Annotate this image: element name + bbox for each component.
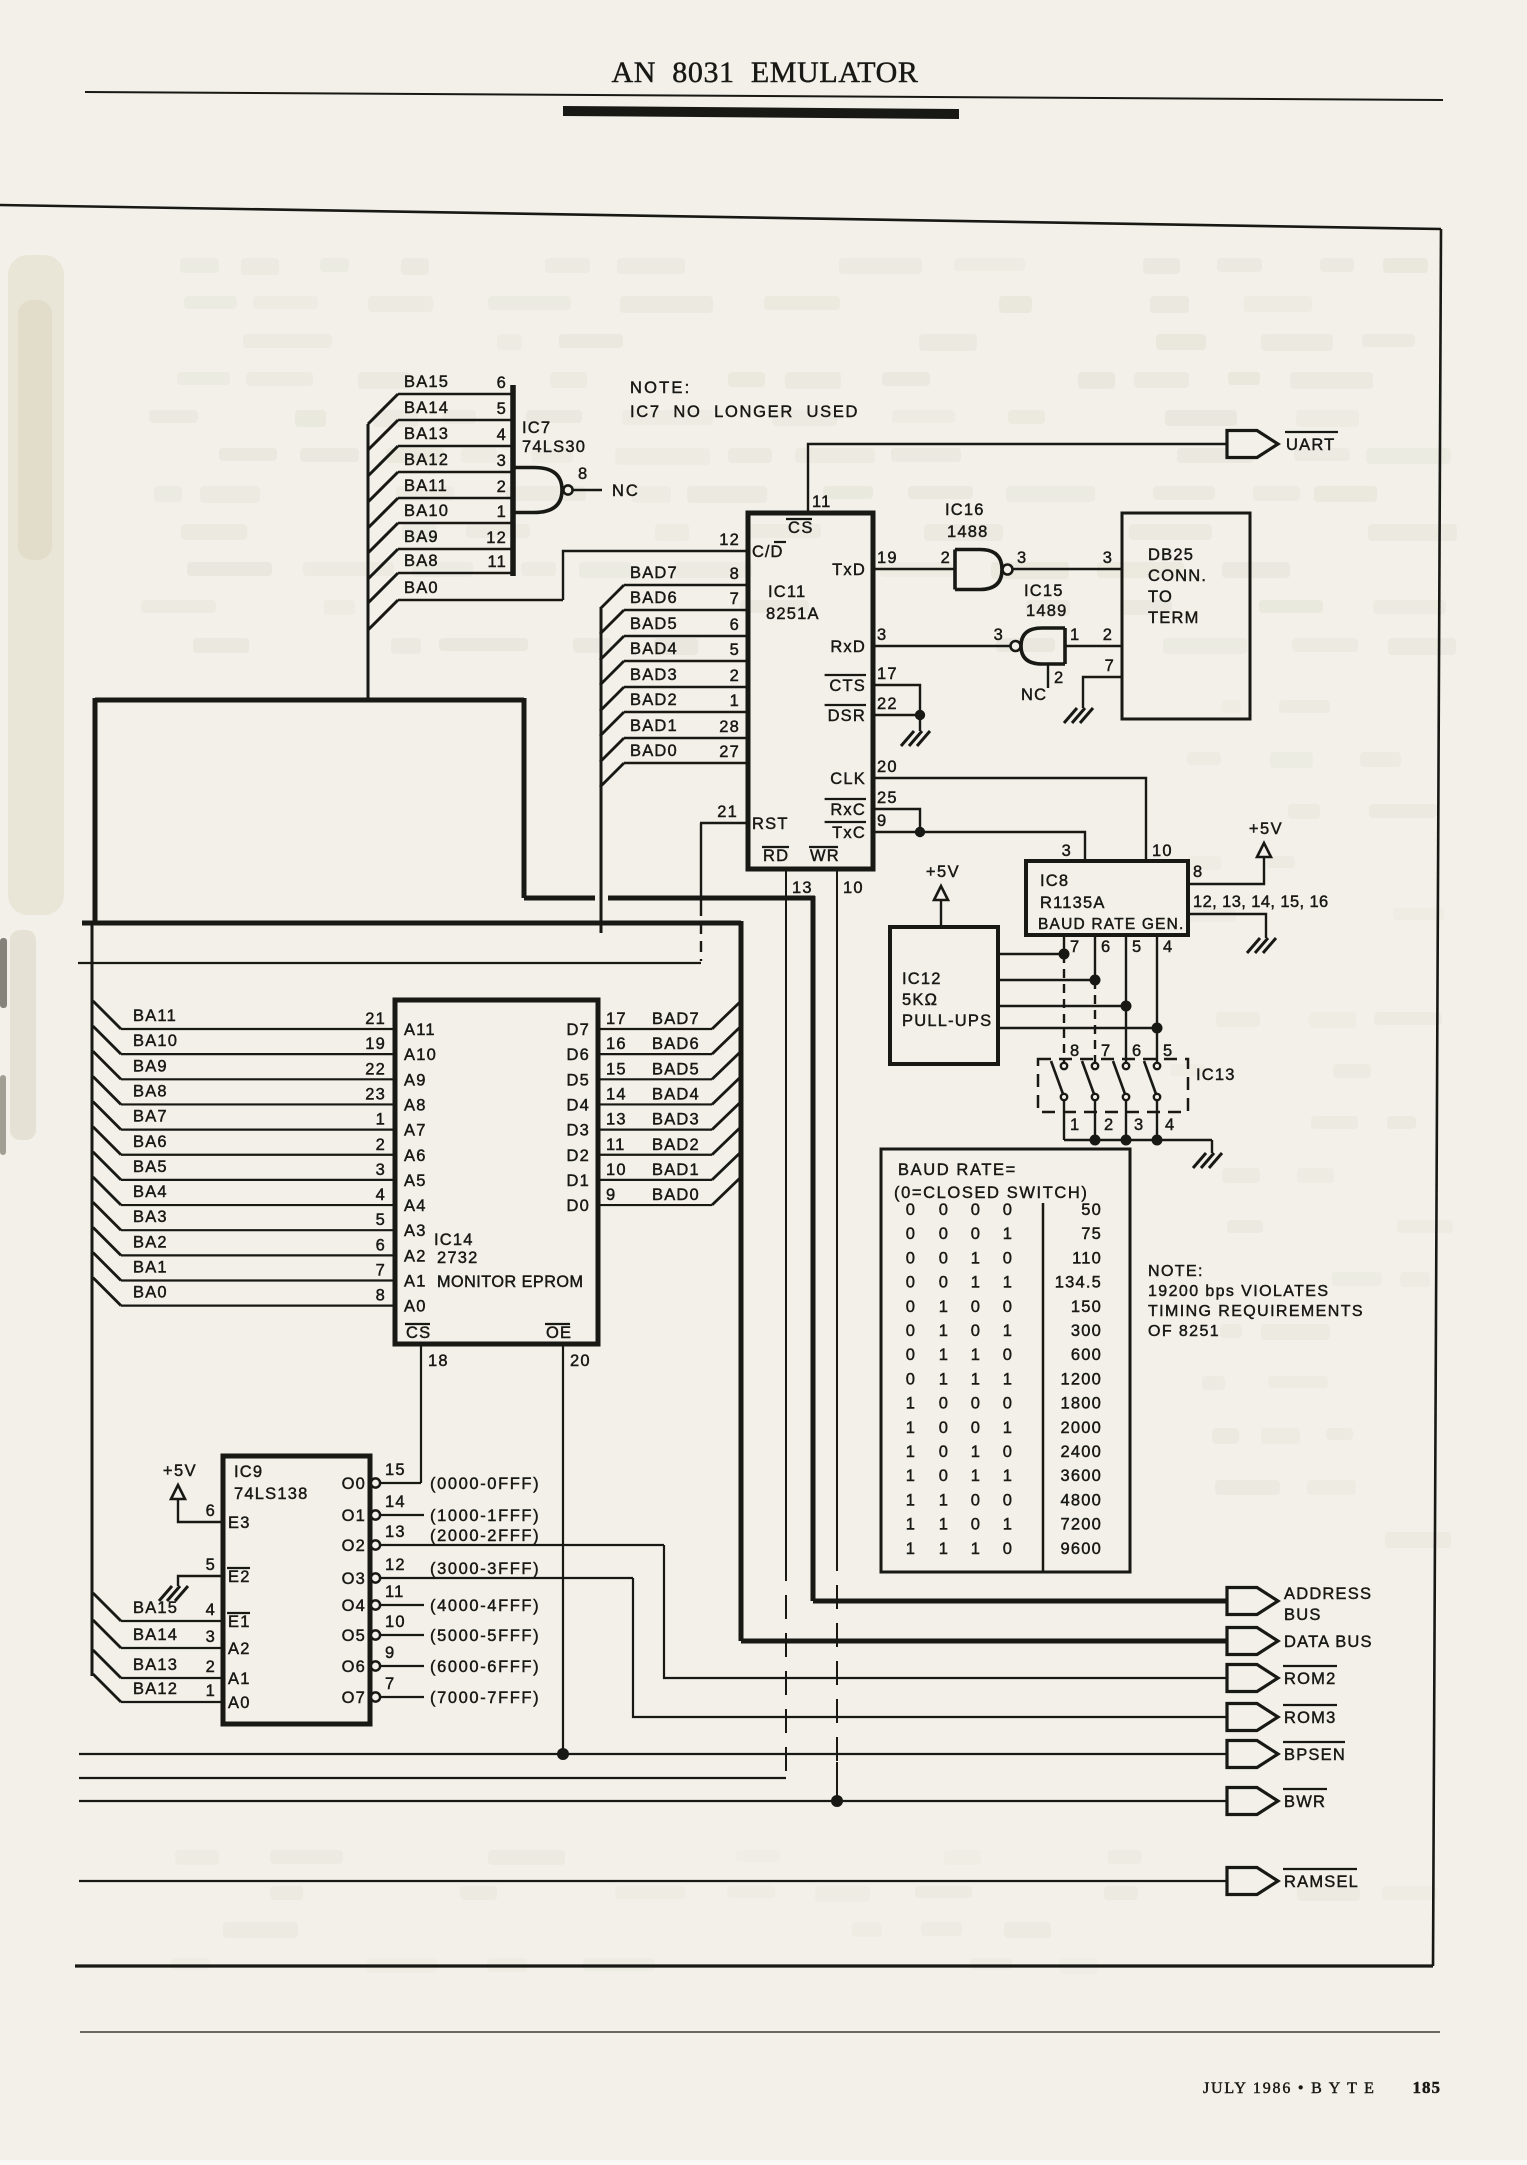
- wire BAD4 to IC11: [600, 661, 624, 685]
- title thick bar: [563, 106, 959, 119]
- wire BA4 to IC14 A4: [93, 1177, 121, 1205]
- IC11 8251A USART: [748, 513, 873, 869]
- svg-text:BA11: BA11: [404, 477, 448, 495]
- ground (IC9 E2): [175, 1586, 188, 1601]
- svg-text:5: 5: [376, 1211, 386, 1229]
- svg-text:RxD: RxD: [830, 638, 866, 656]
- svg-text:10: 10: [385, 1613, 406, 1631]
- svg-text:3: 3: [1103, 549, 1113, 567]
- svg-text:1: 1: [939, 1322, 949, 1340]
- svg-text:7200: 7200: [1060, 1516, 1102, 1534]
- svg-text:NC: NC: [1021, 686, 1047, 704]
- svg-text:O3: O3: [342, 1570, 366, 1588]
- svg-text:1: 1: [906, 1419, 916, 1437]
- svg-text:C/D: C/D: [752, 543, 783, 561]
- svg-text:2732: 2732: [437, 1249, 479, 1267]
- svg-text:1: 1: [939, 1491, 949, 1509]
- wire IC8 pin 7: [1063, 935, 1065, 954]
- svg-text:CLK: CLK: [830, 770, 866, 788]
- svg-text:+5V: +5V: [1249, 820, 1283, 838]
- wire IC9 E2 to ground: [178, 1576, 223, 1586]
- svg-text:TxC: TxC: [832, 824, 866, 842]
- svg-text:A1: A1: [404, 1273, 427, 1291]
- connector J1 DB25: [1122, 513, 1250, 719]
- svg-text:ROM3: ROM3: [1284, 1709, 1336, 1727]
- svg-text:BA0: BA0: [133, 1284, 168, 1302]
- svg-text:BPSEN: BPSEN: [1284, 1746, 1346, 1764]
- svg-text:PULL-UPS: PULL-UPS: [902, 1012, 992, 1030]
- svg-text:CONN.: CONN.: [1148, 567, 1207, 585]
- wire BA15 to IC9 E1: [93, 1593, 121, 1621]
- wire BAD6 to IC11: [600, 610, 624, 634]
- wire BA11 to IC7: [368, 498, 398, 528]
- svg-text:1: 1: [971, 1274, 981, 1292]
- svg-text:74LS30: 74LS30: [522, 438, 586, 456]
- node ROM2 arrow: [1227, 1665, 1278, 1692]
- IC8 R1135A baud rate generator: [1026, 861, 1188, 935]
- svg-text:1: 1: [730, 692, 740, 710]
- svg-text:BA0: BA0: [404, 579, 439, 597]
- svg-text:22: 22: [365, 1060, 386, 1078]
- svg-text:0: 0: [906, 1322, 916, 1340]
- svg-text:0: 0: [906, 1346, 916, 1364]
- svg-text:1: 1: [971, 1346, 981, 1364]
- node BA bus (top) vertical: [367, 424, 370, 700]
- svg-text:A10: A10: [404, 1046, 437, 1064]
- svg-text:RD: RD: [763, 847, 789, 865]
- svg-text:28: 28: [719, 718, 740, 736]
- svg-text:BA15: BA15: [404, 373, 449, 391]
- wire BA13 to IC7: [368, 446, 398, 476]
- svg-text:BA6: BA6: [133, 1133, 168, 1151]
- svg-text:R1135A: R1135A: [1040, 894, 1106, 912]
- svg-text:7: 7: [730, 590, 740, 608]
- svg-text:BAD2: BAD2: [630, 691, 678, 709]
- wire BAD1 to IC11: [600, 738, 624, 762]
- svg-text:14: 14: [606, 1085, 627, 1103]
- baud rate table: [881, 1149, 1130, 1572]
- svg-text:D1: D1: [567, 1172, 591, 1190]
- switch block IC13: [1038, 1059, 1188, 1112]
- svg-text:0: 0: [939, 1419, 949, 1437]
- svg-text:16: 16: [606, 1035, 627, 1053]
- wire BA12 to IC9 A0: [93, 1674, 121, 1702]
- svg-text:TO: TO: [1148, 588, 1173, 606]
- svg-text:8: 8: [1070, 1042, 1080, 1060]
- svg-text:RxC: RxC: [830, 801, 866, 819]
- svg-text:11: 11: [487, 553, 507, 571]
- wire BA7 to IC14 A7: [93, 1102, 121, 1130]
- svg-text:0: 0: [939, 1249, 949, 1267]
- svg-text:2400: 2400: [1060, 1443, 1102, 1461]
- svg-text:19200 bps VIOLATES: 19200 bps VIOLATES: [1148, 1283, 1329, 1300]
- svg-text:1: 1: [939, 1540, 949, 1558]
- svg-text:20: 20: [570, 1352, 591, 1370]
- svg-text:A3: A3: [404, 1222, 427, 1240]
- svg-text:0: 0: [939, 1443, 949, 1461]
- wire IC12 to IC8 pin 4: [998, 1027, 1157, 1029]
- svg-text:2: 2: [1103, 626, 1113, 644]
- switch IC13-4: [1154, 1063, 1160, 1069]
- ground (IC8): [1263, 938, 1276, 953]
- svg-text:A2: A2: [404, 1247, 427, 1265]
- svg-text:13: 13: [792, 879, 813, 897]
- wire data bus to arrow: [741, 1639, 1227, 1644]
- svg-text:3: 3: [994, 626, 1004, 644]
- wire BA6 to IC14 A6: [93, 1127, 121, 1155]
- svg-text:1: 1: [971, 1443, 981, 1461]
- svg-text:8: 8: [730, 565, 740, 583]
- svg-text:0: 0: [906, 1201, 916, 1219]
- svg-text:3: 3: [497, 452, 507, 470]
- svg-text:BAD6: BAD6: [630, 589, 678, 607]
- svg-text:10: 10: [843, 879, 864, 897]
- svg-text:1: 1: [1070, 1116, 1080, 1134]
- svg-text:BAD5: BAD5: [630, 615, 678, 633]
- svg-text:1: 1: [971, 1249, 981, 1267]
- svg-text:0: 0: [1003, 1201, 1013, 1219]
- wire BA15 to IC7: [368, 394, 398, 424]
- svg-text:14: 14: [385, 1493, 406, 1511]
- svg-text:BAD7: BAD7: [630, 564, 678, 582]
- wire TxD to IC16: [873, 568, 955, 570]
- wire BA0 to IC14 A0: [93, 1278, 121, 1306]
- wire IC11 RD pin 13 down: [785, 869, 787, 1557]
- node junction CTS/DSR: [915, 710, 925, 720]
- svg-text:0: 0: [1003, 1395, 1013, 1413]
- svg-text:(1000-1FFF): (1000-1FFF): [430, 1507, 540, 1525]
- svg-text:4: 4: [206, 1601, 216, 1619]
- svg-text:(5000-5FFF): (5000-5FFF): [430, 1627, 540, 1645]
- svg-text:1: 1: [1070, 626, 1080, 644]
- svg-text:BA5: BA5: [133, 1158, 168, 1176]
- wire IC8 pin 8 to +5V: [1188, 857, 1264, 884]
- node ADDRESS BUS arrow: [1227, 1588, 1278, 1615]
- switch IC13-3: [1123, 1063, 1129, 1069]
- svg-text:0: 0: [906, 1298, 916, 1316]
- wire BA10 to IC7: [368, 523, 398, 553]
- svg-text:BA4: BA4: [133, 1183, 168, 1201]
- svg-text:BA1: BA1: [133, 1259, 168, 1277]
- svg-text:6: 6: [376, 1236, 386, 1254]
- svg-text:1: 1: [939, 1298, 949, 1316]
- svg-text:7: 7: [1105, 657, 1115, 675]
- svg-text:AN 8031 EMULATOR: AN 8031 EMULATOR: [612, 56, 919, 89]
- svg-text:0: 0: [939, 1225, 949, 1243]
- svg-text:3: 3: [1062, 842, 1072, 860]
- svg-text:BA8: BA8: [404, 552, 439, 570]
- svg-text:7: 7: [1101, 1042, 1111, 1060]
- svg-text:UART: UART: [1286, 436, 1335, 454]
- svg-text:6: 6: [497, 374, 507, 392]
- wire IC8 pin 5: [1125, 935, 1127, 1062]
- wire RST net to left edge: [78, 962, 701, 964]
- svg-text:BAD0: BAD0: [652, 1186, 700, 1204]
- svg-text:A8: A8: [404, 1096, 427, 1114]
- svg-text:3600: 3600: [1060, 1467, 1102, 1485]
- wire IC8 pin 6: [1094, 935, 1096, 980]
- svg-text:D5: D5: [567, 1071, 591, 1089]
- wire IC14 CS pin 18 to IC9 O0: [420, 1344, 422, 1483]
- svg-text:BAD5: BAD5: [652, 1060, 700, 1078]
- svg-text:0: 0: [971, 1298, 981, 1316]
- svg-text:4: 4: [1165, 1116, 1175, 1134]
- IC7 input bar: [510, 385, 516, 576]
- wire IC8 pins 12-16 to ground: [1188, 914, 1266, 938]
- svg-text:BA9: BA9: [133, 1057, 168, 1075]
- svg-text:0: 0: [906, 1249, 916, 1267]
- svg-text:10: 10: [1152, 842, 1173, 860]
- svg-text:IC13: IC13: [1196, 1066, 1236, 1084]
- svg-text:+5V: +5V: [163, 1462, 197, 1480]
- svg-text:OE: OE: [546, 1324, 572, 1342]
- svg-text:O1: O1: [342, 1507, 366, 1525]
- svg-text:D3: D3: [567, 1122, 591, 1140]
- wire BA9 to IC7: [368, 549, 398, 579]
- svg-text:BAD3: BAD3: [652, 1111, 700, 1129]
- svg-text:BAD7: BAD7: [652, 1010, 700, 1028]
- svg-text:D2: D2: [567, 1147, 591, 1165]
- switch IC13-1: [1061, 1063, 1067, 1069]
- svg-text:0: 0: [939, 1395, 949, 1413]
- svg-text:DSR: DSR: [828, 707, 866, 725]
- svg-text:12: 12: [385, 1556, 406, 1574]
- node RAMSEL arrow: [1227, 1868, 1278, 1895]
- svg-text:3: 3: [877, 626, 887, 644]
- svg-text:1800: 1800: [1060, 1395, 1102, 1413]
- svg-text:7: 7: [376, 1262, 386, 1280]
- svg-text:A9: A9: [404, 1071, 427, 1089]
- svg-text:5: 5: [1132, 938, 1142, 956]
- svg-text:0: 0: [939, 1201, 949, 1219]
- svg-text:IC12: IC12: [902, 970, 942, 988]
- svg-text:TIMING REQUIREMENTS: TIMING REQUIREMENTS: [1148, 1303, 1364, 1320]
- svg-text:23: 23: [365, 1085, 386, 1103]
- svg-text:BAD4: BAD4: [652, 1085, 700, 1103]
- svg-text:6: 6: [1132, 1042, 1142, 1060]
- wire BWR rail: [79, 1800, 1227, 1802]
- svg-text:5: 5: [730, 641, 740, 659]
- svg-text:50: 50: [1081, 1201, 1102, 1219]
- svg-text:9: 9: [877, 812, 887, 830]
- node ROM3 arrow: [1227, 1704, 1278, 1731]
- svg-text:BA13: BA13: [133, 1656, 178, 1674]
- node left BA bus vertical: [91, 925, 94, 1676]
- wire IC15 output to IC11 RxD: [873, 645, 1010, 647]
- svg-text:8251A: 8251A: [766, 605, 820, 623]
- svg-text:22: 22: [877, 695, 898, 713]
- svg-text:0: 0: [939, 1467, 949, 1485]
- wire BAD3 to IC11: [600, 687, 624, 711]
- wire RD net to left edge: [79, 1777, 786, 1779]
- svg-text:BAD1: BAD1: [630, 717, 678, 735]
- svg-text:1: 1: [906, 1491, 916, 1509]
- svg-text:0: 0: [1003, 1298, 1013, 1316]
- svg-text:3: 3: [1017, 549, 1027, 567]
- svg-text:0: 0: [971, 1201, 981, 1219]
- svg-text:DB25: DB25: [1148, 546, 1194, 564]
- svg-text:1: 1: [906, 1443, 916, 1461]
- svg-text:1: 1: [939, 1516, 949, 1534]
- svg-text:185: 185: [1413, 2078, 1442, 2097]
- node junction OE/BPSEN: [557, 1748, 569, 1760]
- node DATA BUS arrow: [1227, 1628, 1278, 1655]
- svg-text:3: 3: [206, 1628, 216, 1646]
- svg-text:BA13: BA13: [404, 425, 449, 443]
- svg-text:2: 2: [1054, 669, 1064, 687]
- svg-text:2: 2: [497, 478, 507, 496]
- svg-text:NC: NC: [612, 482, 640, 500]
- svg-text:A7: A7: [404, 1122, 427, 1140]
- wire IC12 to IC8 pin 6: [998, 979, 1095, 981]
- wire BAD2 to IC11: [600, 712, 624, 736]
- svg-text:E2: E2: [228, 1568, 251, 1586]
- wire DB25 pin 7 to ground: [1083, 677, 1122, 708]
- wire BA3 to IC14 A3: [93, 1202, 121, 1230]
- svg-text:150: 150: [1071, 1298, 1102, 1316]
- svg-text:1: 1: [971, 1370, 981, 1388]
- svg-text:8: 8: [578, 465, 588, 483]
- svg-text:IC15: IC15: [1024, 582, 1064, 600]
- svg-text:BAUD RATE GEN.: BAUD RATE GEN.: [1038, 916, 1185, 933]
- svg-text:1: 1: [206, 1682, 216, 1700]
- svg-text:11: 11: [385, 1583, 405, 1601]
- svg-text:WR: WR: [810, 847, 840, 865]
- svg-text:300: 300: [1071, 1322, 1102, 1340]
- svg-text:0: 0: [906, 1370, 916, 1388]
- svg-text:ADDRESS: ADDRESS: [1284, 1585, 1372, 1603]
- op-amp U1 IC7 74LS30 NAND gate: [515, 468, 562, 513]
- wire address bus to arrow: [813, 1599, 1227, 1604]
- svg-text:21: 21: [365, 1010, 386, 1028]
- svg-text:BA8: BA8: [133, 1082, 168, 1100]
- svg-text:O7: O7: [342, 1689, 366, 1707]
- svg-text:15: 15: [606, 1060, 627, 1078]
- svg-text:BA10: BA10: [133, 1032, 178, 1050]
- svg-text:IC7: IC7: [522, 419, 551, 437]
- wire IC7 pin 8 output: [573, 489, 602, 491]
- svg-text:4: 4: [376, 1186, 386, 1204]
- svg-text:8: 8: [1193, 863, 1203, 881]
- svg-text:IC14: IC14: [434, 1231, 474, 1249]
- svg-text:1: 1: [906, 1516, 916, 1534]
- node junction WR/BWR: [831, 1795, 843, 1807]
- svg-text:5: 5: [1163, 1042, 1173, 1060]
- wire BA0 to C/D: [563, 551, 748, 600]
- svg-text:1489: 1489: [1026, 602, 1068, 620]
- svg-text:BA3: BA3: [133, 1208, 168, 1226]
- svg-text:A2: A2: [228, 1640, 251, 1658]
- svg-text:D4: D4: [567, 1096, 591, 1114]
- svg-text:21: 21: [717, 803, 738, 821]
- svg-text:1: 1: [906, 1540, 916, 1558]
- svg-text:5: 5: [206, 1556, 216, 1574]
- svg-text:BA9: BA9: [404, 528, 439, 546]
- node BPSEN arrow: [1227, 1741, 1278, 1768]
- svg-text:0: 0: [906, 1225, 916, 1243]
- svg-text:0: 0: [1003, 1540, 1013, 1558]
- svg-text:1: 1: [497, 503, 507, 521]
- svg-text:2000: 2000: [1060, 1419, 1102, 1437]
- wire IC11 CTS to ground: [873, 685, 920, 715]
- IC11 pin 11 CS wire to UART: [808, 444, 1227, 513]
- svg-text:8: 8: [376, 1287, 386, 1305]
- memory IC14 2732 monitor EPROM: [395, 1000, 598, 1344]
- wire address bus vertical to arrow: [811, 896, 816, 1601]
- svg-text:IC16: IC16: [945, 501, 985, 519]
- svg-text:BAD1: BAD1: [652, 1161, 700, 1179]
- svg-text:600: 600: [1071, 1346, 1102, 1364]
- svg-text:0: 0: [971, 1225, 981, 1243]
- wire ROM2 route from IC9 O2: [664, 1545, 1227, 1678]
- svg-text:+5V: +5V: [926, 863, 960, 881]
- wire BA11 to IC14 A11: [93, 1001, 121, 1029]
- svg-text:5KΩ: 5KΩ: [902, 991, 938, 1009]
- svg-text:11: 11: [812, 493, 832, 511]
- wire BA2 to IC14 A2: [93, 1227, 121, 1255]
- svg-text:2: 2: [730, 667, 740, 685]
- svg-text:BAD6: BAD6: [652, 1035, 700, 1053]
- svg-text:A0: A0: [228, 1694, 251, 1712]
- svg-text:110: 110: [1072, 1249, 1102, 1267]
- svg-text:2: 2: [1104, 1116, 1114, 1134]
- svg-text:ROM2: ROM2: [1284, 1670, 1336, 1688]
- gate IC15 1489 receiver: [1021, 628, 1065, 664]
- svg-text:0: 0: [939, 1274, 949, 1292]
- wire BA5 to IC14 A5: [93, 1152, 121, 1180]
- svg-text:1: 1: [1003, 1370, 1013, 1388]
- svg-text:IC9: IC9: [234, 1463, 263, 1481]
- wire data bus vertical to arrow: [739, 921, 744, 1641]
- wire data bus horizontal: [82, 921, 741, 926]
- svg-text:1: 1: [939, 1346, 949, 1364]
- wire BA14 to IC9 A2: [93, 1620, 121, 1648]
- svg-text:0: 0: [1003, 1443, 1013, 1461]
- svg-text:4: 4: [497, 426, 507, 444]
- svg-text:20: 20: [877, 758, 898, 776]
- svg-text:BA7: BA7: [133, 1108, 168, 1126]
- svg-text:BAD0: BAD0: [630, 742, 678, 760]
- svg-text:3: 3: [1134, 1116, 1144, 1134]
- svg-text:A4: A4: [404, 1197, 427, 1215]
- wire IC11 CLK to IC8 pin 10: [873, 778, 1146, 861]
- wire BA8 to IC14 A8: [93, 1076, 121, 1104]
- svg-text:0: 0: [1003, 1491, 1013, 1509]
- svg-text:0: 0: [971, 1491, 981, 1509]
- svg-text:0: 0: [971, 1322, 981, 1340]
- svg-text:0: 0: [971, 1516, 981, 1534]
- svg-text:19: 19: [877, 549, 898, 567]
- wire address bus loop right: [522, 698, 527, 898]
- node junction RxC/TxC: [915, 827, 925, 837]
- svg-text:0: 0: [1003, 1249, 1013, 1267]
- power +5V (IC9): [171, 1485, 185, 1499]
- svg-text:BA14: BA14: [133, 1626, 178, 1644]
- svg-text:IC8: IC8: [1040, 872, 1069, 890]
- svg-text:17: 17: [877, 665, 898, 683]
- svg-text:BAD3: BAD3: [630, 666, 678, 684]
- wire address bus horizontal: [524, 896, 595, 901]
- wire IC8 pin 4: [1156, 935, 1158, 1062]
- svg-text:74LS138: 74LS138: [234, 1485, 308, 1503]
- svg-text:6: 6: [730, 616, 740, 634]
- wire IC11 RxC: [873, 809, 920, 832]
- svg-text:1488: 1488: [947, 523, 989, 541]
- svg-text:5: 5: [497, 400, 507, 418]
- svg-text:MONITOR EPROM: MONITOR EPROM: [437, 1273, 584, 1291]
- svg-text:BA10: BA10: [404, 502, 449, 520]
- svg-text:O0: O0: [342, 1475, 366, 1493]
